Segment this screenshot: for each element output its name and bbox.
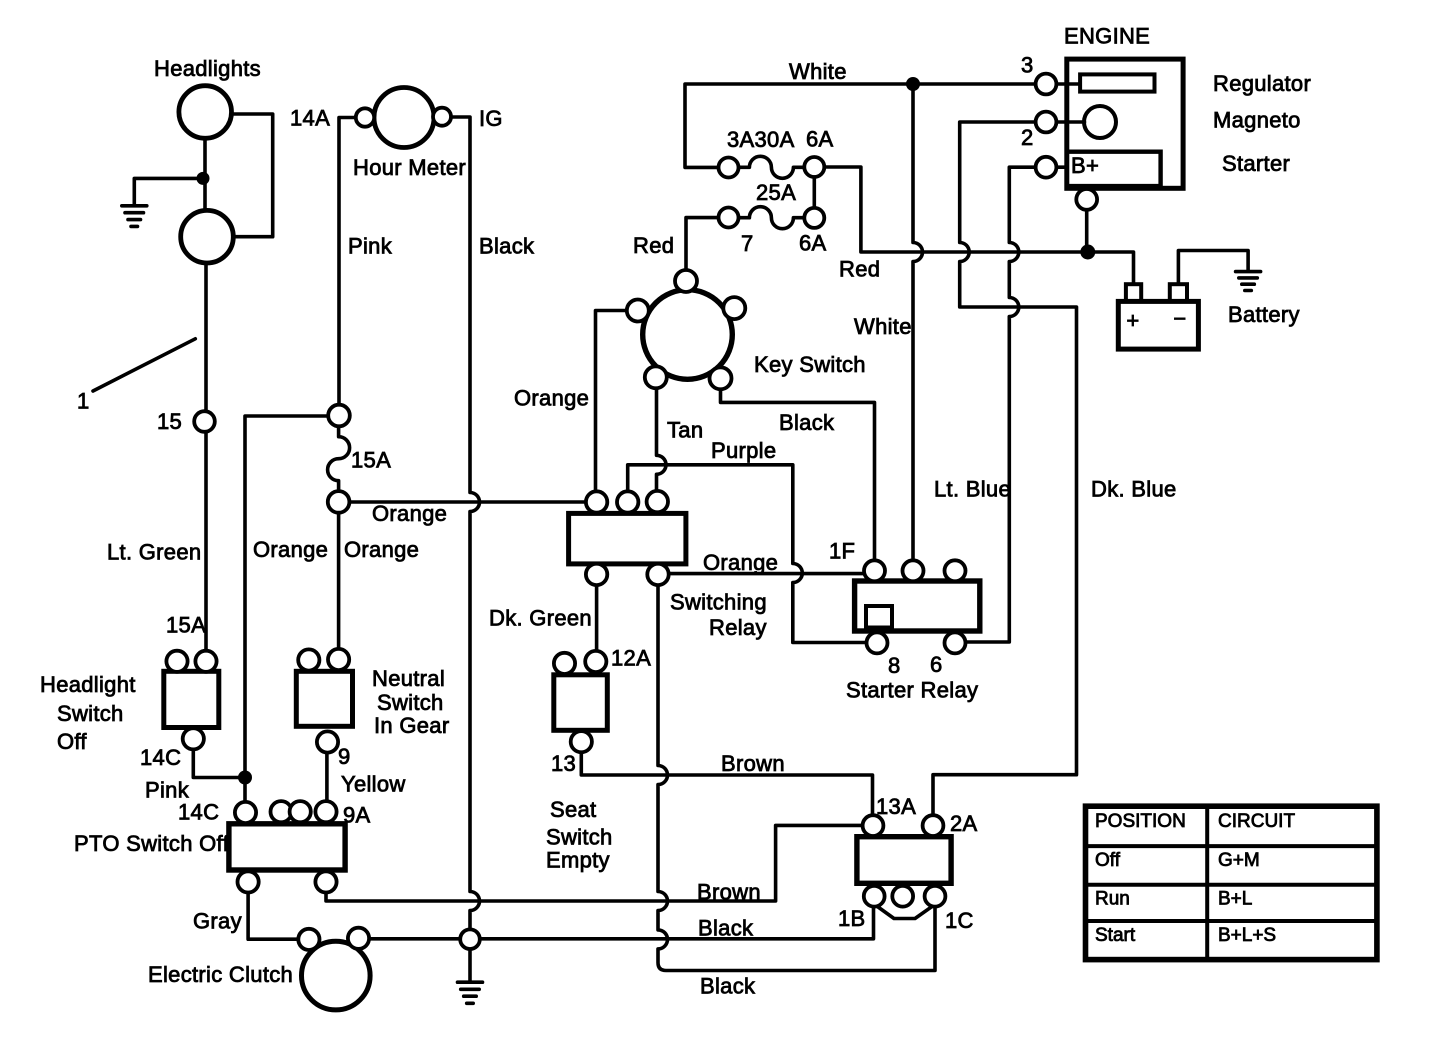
svg-text:Black: Black xyxy=(479,234,535,259)
svg-text:Pink: Pink xyxy=(348,234,393,259)
svg-text:8: 8 xyxy=(888,653,901,678)
fuse 6A element xyxy=(739,156,805,178)
fuse 25A terminal right xyxy=(804,208,824,228)
svg-text:Dk. Green: Dk. Green xyxy=(489,606,592,631)
svg-text:Electric Clutch: Electric Clutch xyxy=(148,962,293,987)
wire stub B+ terminal xyxy=(1057,165,1067,169)
svg-text:Yellow: Yellow xyxy=(341,772,406,797)
svg-text:Switch: Switch xyxy=(57,701,124,726)
svg-text:Battery: Battery xyxy=(1228,302,1300,327)
switching relay body xyxy=(569,513,686,564)
annotation line 1 xyxy=(93,339,195,391)
svg-text:1F: 1F xyxy=(829,539,855,564)
key switch terminal A xyxy=(723,297,745,319)
PTO switch terminal top 2 xyxy=(271,801,292,822)
fuse 15A terminal bottom xyxy=(328,491,350,513)
svg-text:14C: 14C xyxy=(178,800,219,825)
wire link between fuse terminals xyxy=(812,177,816,208)
seat switch terminal top left xyxy=(554,653,575,674)
svg-text:Start: Start xyxy=(1095,925,1136,946)
seat switch body xyxy=(554,675,608,731)
wire headlight parallel bracket xyxy=(229,114,273,237)
svg-text:6A: 6A xyxy=(806,127,834,152)
wire Orange from 15A fuse down to neutral switch xyxy=(337,513,341,649)
headlight lamp 1 xyxy=(179,86,232,139)
wire Brown from seat switch 13 to connector 13A xyxy=(581,752,872,815)
svg-text:PTO Switch Off: PTO Switch Off xyxy=(74,831,230,856)
svg-text:Brown: Brown xyxy=(697,880,761,905)
wire Black from hour meter IG down to ground junction (hops Orange and Brown) xyxy=(451,117,480,929)
svg-text:Gray: Gray xyxy=(193,909,242,934)
engine box xyxy=(1067,59,1183,188)
svg-text:1: 1 xyxy=(77,389,90,414)
neutral switch body xyxy=(296,671,352,726)
svg-text:Red: Red xyxy=(839,257,880,282)
neutral switch terminal top left xyxy=(298,649,319,670)
svg-text:Switching: Switching xyxy=(670,590,767,615)
wire Dk. Green from switching relay to seat switch xyxy=(595,585,599,651)
svg-text:1B: 1B xyxy=(838,906,866,931)
ignition connector terminal 13A xyxy=(863,815,884,836)
hour meter terminal IG xyxy=(433,108,451,126)
headlight switch terminal 15A xyxy=(195,651,216,672)
svg-text:13A: 13A xyxy=(876,794,916,819)
neutral switch terminal 9 xyxy=(317,731,338,752)
wire Yellow from neutral switch to PTO switch 9A xyxy=(325,753,329,801)
svg-text:Black: Black xyxy=(779,410,835,435)
svg-text:White: White xyxy=(789,59,847,84)
svg-text:Starter: Starter xyxy=(1222,151,1290,176)
svg-text:Black: Black xyxy=(700,974,756,999)
key switch terminal M xyxy=(645,366,667,388)
svg-text:Seat: Seat xyxy=(550,797,596,822)
fuse 25A terminal left xyxy=(719,208,739,228)
svg-text:In Gear: In Gear xyxy=(374,713,449,738)
svg-text:2: 2 xyxy=(1021,125,1034,150)
svg-text:CIRCUIT: CIRCUIT xyxy=(1218,811,1295,832)
engine terminal 3 xyxy=(1036,74,1057,95)
fuse 6A terminal left xyxy=(719,158,739,178)
seat switch terminal top right xyxy=(585,651,606,672)
electric clutch terminal left xyxy=(298,929,319,950)
key switch terminal L xyxy=(627,300,649,322)
svg-text:9A: 9A xyxy=(343,803,371,828)
svg-text:Switch: Switch xyxy=(546,825,613,850)
svg-text:Magneto: Magneto xyxy=(1213,108,1301,133)
svg-text:B+: B+ xyxy=(1071,153,1099,178)
wire Orange from switching relay to starter relay 1F xyxy=(668,572,864,576)
svg-text:12A: 12A xyxy=(611,646,651,671)
wire Lt. Green headlight feed down to headlight switch xyxy=(204,263,208,651)
wire stub engine terminal 3 xyxy=(1056,82,1080,86)
electric clutch terminal right xyxy=(348,928,369,949)
junction dot headlight ground xyxy=(197,172,210,185)
key switch terminal G xyxy=(710,367,732,389)
svg-text:Starter Relay: Starter Relay xyxy=(846,678,978,703)
hour meter terminal 14A xyxy=(356,108,374,126)
fuse 15A element xyxy=(328,426,350,491)
wire White vertical from junction to starter relay (hops Red) xyxy=(913,84,923,561)
wire between headlight lamps xyxy=(203,138,207,210)
svg-text:Run: Run xyxy=(1095,889,1130,910)
svg-text:Red: Red xyxy=(633,233,674,258)
table key switch positions xyxy=(1086,806,1377,959)
svg-text:Headlight: Headlight xyxy=(40,672,136,697)
battery post minus xyxy=(1170,284,1187,301)
wire engine bottom terminal to Red junction xyxy=(1085,210,1089,252)
svg-text:15: 15 xyxy=(157,409,182,434)
junction dot battery feed xyxy=(1080,245,1095,260)
connector 15 xyxy=(194,411,215,432)
wire Gray from PTO switch to electric clutch xyxy=(248,892,298,939)
svg-text:2A: 2A xyxy=(950,811,978,836)
svg-text:14A: 14A xyxy=(290,106,330,131)
starter relay terminal top 2 xyxy=(903,560,924,581)
ignition connector terminal 1C xyxy=(925,886,946,907)
svg-text:6A: 6A xyxy=(799,231,827,256)
wire Pink from hour meter to 15A fuse xyxy=(339,118,356,405)
svg-text:−: − xyxy=(1173,306,1186,331)
svg-text:6: 6 xyxy=(930,652,943,677)
svg-text:Black: Black xyxy=(698,916,754,941)
starter relay terminal 1F xyxy=(864,560,885,581)
wire stub magneto terminal xyxy=(1056,120,1084,124)
svg-text:Dk. Blue: Dk. Blue xyxy=(1091,477,1177,502)
svg-text:15A: 15A xyxy=(351,448,391,473)
svg-text:G+M: G+M xyxy=(1218,850,1260,871)
wire 14C from headlight switch to junction xyxy=(193,750,245,778)
switching relay terminal top 2 xyxy=(617,491,638,512)
wire headlight ground lead xyxy=(134,178,203,204)
key switch terminal B xyxy=(675,270,697,292)
fuse 6A terminal right xyxy=(804,157,824,177)
headlight switch terminal 14C xyxy=(183,728,204,749)
wire Orange horizontal from 15A fuse to switching relay xyxy=(350,500,587,504)
headlight switch body xyxy=(164,671,219,727)
PTO switch terminal bottom left xyxy=(238,871,259,892)
svg-text:Orange: Orange xyxy=(253,537,328,562)
starter relay body xyxy=(855,581,980,631)
svg-text:7: 7 xyxy=(741,231,754,256)
wire Brown from PTO switch to connector 13A xyxy=(326,825,863,901)
engine magneto circle xyxy=(1084,106,1116,138)
switching relay terminal top 1 xyxy=(586,491,607,512)
svg-text:Lt. Green: Lt. Green xyxy=(107,540,201,565)
svg-text:14C: 14C xyxy=(140,745,181,770)
ground clutch junction xyxy=(458,982,483,1003)
fuse 15A terminal top xyxy=(328,405,350,427)
wire Lt. Blue from B+ terminal to starter relay 6 (hops Red and Dk. Blue) xyxy=(966,167,1036,642)
svg-text:1C: 1C xyxy=(945,908,974,933)
battery body xyxy=(1118,301,1198,349)
ignition connector terminal 1B xyxy=(864,886,885,907)
fuse 25A element xyxy=(739,207,805,229)
PTO switch terminal bottom right xyxy=(315,871,336,892)
wire Orange from key switch to switching relay xyxy=(596,311,628,492)
switching relay terminal top 3 xyxy=(647,491,668,512)
connector clutch ground junction xyxy=(460,929,480,949)
starter relay terminal top 3 xyxy=(945,560,966,581)
wire jumper under connector 1B-1C xyxy=(876,906,933,919)
svg-text:B+L: B+L xyxy=(1218,889,1252,910)
engine starter rectangle xyxy=(1069,152,1161,186)
svg-text:ENGINE: ENGINE xyxy=(1064,24,1150,49)
svg-text:Switch: Switch xyxy=(377,690,444,715)
engine terminal B+ xyxy=(1036,157,1057,178)
wire Red from 6A fuse to battery plus xyxy=(824,167,1133,284)
switching relay terminal bottom 2 xyxy=(647,564,668,585)
wire Black from key switch to starter relay xyxy=(721,389,875,560)
svg-text:Neutral: Neutral xyxy=(372,666,445,691)
svg-text:Relay: Relay xyxy=(709,615,767,640)
svg-text:Orange: Orange xyxy=(344,537,419,562)
svg-text:Tan: Tan xyxy=(667,418,703,443)
svg-text:Regulator: Regulator xyxy=(1213,71,1311,96)
svg-text:White: White xyxy=(854,314,912,339)
svg-text:3: 3 xyxy=(1021,53,1034,78)
wire Black from electric clutch to connector 1B xyxy=(369,907,874,939)
engine terminal 2 xyxy=(1036,112,1057,133)
svg-text:Orange: Orange xyxy=(703,550,778,575)
svg-text:Lt. Blue: Lt. Blue xyxy=(934,477,1011,502)
svg-text:Purple: Purple xyxy=(711,438,776,463)
svg-text:IG: IG xyxy=(479,106,503,131)
battery post plus xyxy=(1126,284,1141,301)
switching relay terminal bottom 1 xyxy=(586,564,607,585)
svg-text:9: 9 xyxy=(338,744,351,769)
PTO switch terminal 9A xyxy=(315,801,336,822)
PTO switch terminal top 3 xyxy=(290,801,311,822)
starter relay terminal 6 xyxy=(945,632,966,653)
ignition connector terminal middle xyxy=(892,886,913,907)
svg-text:15A: 15A xyxy=(166,613,206,638)
headlight lamp 2 xyxy=(181,210,234,263)
engine regulator rectangle xyxy=(1080,74,1154,91)
wire White top from fuse to engine terminal 3 xyxy=(685,84,1036,167)
wire Orange branch to junction and PTO switch terminal 14C xyxy=(245,416,339,801)
neutral switch terminal top right xyxy=(328,649,349,670)
wire ground stub below clutch junction xyxy=(468,949,472,981)
wire from switching relay down to bottom Black run (hops Brown, Brown, Black) xyxy=(658,585,935,971)
wire Tan from key switch to switching relay (hops Purple) xyxy=(657,388,667,491)
wire Purple from switching relay to starter relay 8 (hops Orange) xyxy=(628,465,867,643)
wire battery minus to ground xyxy=(1178,251,1248,285)
PTO switch body xyxy=(229,824,345,870)
electric clutch body xyxy=(302,941,371,1010)
svg-text:Orange: Orange xyxy=(372,501,447,526)
starter relay inner square xyxy=(866,606,892,628)
wire Red from 25A fuse to key switch xyxy=(686,218,719,270)
svg-text:POSITION: POSITION xyxy=(1095,811,1186,832)
seat switch terminal 13 xyxy=(571,731,592,752)
svg-text:Hour Meter: Hour Meter xyxy=(353,155,466,180)
starter relay terminal 8 xyxy=(867,632,888,653)
engine terminal bottom xyxy=(1076,189,1097,210)
wire Dk. Blue from magneto terminal to connector 2A xyxy=(933,122,1077,815)
ground headlights xyxy=(122,206,147,227)
hour meter body xyxy=(374,88,434,148)
svg-text:+: + xyxy=(1126,308,1139,333)
junction dot white wire xyxy=(906,77,920,91)
svg-text:Brown: Brown xyxy=(721,751,785,776)
svg-text:3A30A: 3A30A xyxy=(727,127,795,152)
ignition connector terminal 2A xyxy=(923,815,944,836)
svg-text:Orange: Orange xyxy=(514,386,589,411)
ignition connector body xyxy=(857,837,951,884)
junction dot pink orange xyxy=(238,771,252,785)
svg-text:Off: Off xyxy=(57,729,87,754)
svg-text:Empty: Empty xyxy=(546,848,610,873)
headlight switch terminal top left xyxy=(166,651,187,672)
svg-text:Off: Off xyxy=(1095,850,1121,871)
key switch body xyxy=(643,290,733,380)
PTO switch terminal 14C xyxy=(235,802,256,823)
svg-text:B+L+S: B+L+S xyxy=(1218,925,1276,946)
ground battery xyxy=(1236,272,1261,291)
svg-text:25A: 25A xyxy=(756,180,796,205)
svg-text:13: 13 xyxy=(551,751,576,776)
svg-text:Key Switch: Key Switch xyxy=(754,352,866,377)
svg-text:Headlights: Headlights xyxy=(154,56,261,81)
